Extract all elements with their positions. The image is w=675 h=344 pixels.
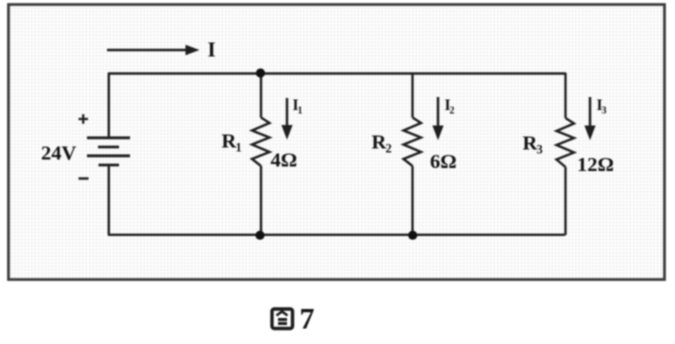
minus sign: [79, 177, 89, 180]
svg-text:R: R: [222, 131, 237, 153]
label 6ohm: [430, 151, 457, 173]
resistor R2: [404, 73, 422, 235]
label I1: [293, 97, 303, 117]
border frame: [9, 5, 665, 280]
caption figure number 7: [300, 303, 315, 336]
label I3: [597, 97, 607, 117]
arrow current I total: [107, 45, 200, 55]
svg-text:I: I: [208, 38, 216, 62]
label R3: [523, 133, 543, 157]
arrow current I1: [281, 98, 292, 140]
battery plate short: [98, 146, 119, 149]
wire battery bottom lead: [108, 166, 110, 235]
svg-text:3: 3: [537, 143, 543, 157]
caption figure glyph tu: [272, 309, 293, 329]
resistor R1: [252, 73, 270, 235]
svg-text:7: 7: [300, 303, 315, 336]
battery plate long top: [87, 136, 130, 139]
label 12ohm: [577, 154, 614, 176]
battery V1 24V: [87, 73, 130, 235]
label 24V: [41, 143, 77, 165]
svg-text:1: 1: [298, 106, 303, 117]
svg-text:R: R: [523, 133, 538, 155]
battery plate short bottom: [99, 164, 120, 167]
label R1: [222, 131, 242, 155]
svg-text:4Ω: 4Ω: [271, 150, 298, 172]
battery plate long: [87, 154, 130, 157]
svg-text:R: R: [372, 132, 387, 154]
resistor R3: [557, 73, 575, 235]
svg-text:1: 1: [236, 141, 242, 155]
wire bottom bus: [108, 234, 565, 236]
node junction bottom R1: [255, 231, 264, 240]
node junction top R1: [256, 68, 265, 77]
label 4ohm: [271, 150, 298, 172]
svg-text:3: 3: [602, 106, 607, 117]
wire top bus: [108, 72, 566, 74]
svg-text:6Ω: 6Ω: [430, 151, 457, 173]
label I2: [445, 97, 455, 117]
arrow current I2: [432, 97, 443, 140]
svg-text:2: 2: [386, 142, 392, 156]
label I: [208, 38, 216, 62]
svg-text:24V: 24V: [41, 143, 77, 165]
label R2: [372, 132, 392, 156]
node junction bottom R2: [408, 231, 417, 240]
svg-text:2: 2: [450, 106, 455, 117]
wire battery top lead: [108, 73, 110, 137]
svg-text:12Ω: 12Ω: [577, 154, 614, 176]
plus sign: [79, 114, 89, 124]
arrow current I3: [584, 97, 595, 140]
